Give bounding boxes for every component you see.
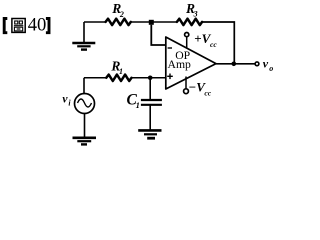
wire: middle rail from source to R1 (84, 77, 107, 79)
op-amp -Vcc pin stub (185, 77, 187, 89)
svg-text:40: 40 (28, 15, 47, 36)
op-amp inverting input sign - (168, 47, 172, 49)
wire: source vertical down (84, 113, 86, 137)
wire: source vertical up (83, 78, 85, 94)
voltage source vi (75, 94, 95, 114)
resistor R3 zigzag (177, 19, 202, 25)
svg-text:3: 3 (193, 9, 198, 18)
op-amp +Vcc pin circle (185, 33, 189, 37)
output terminal circle (255, 62, 259, 66)
wire: top rail middle segment (131, 21, 178, 23)
figure caption bracket right 】 (46, 19, 49, 33)
svg-text:+V: +V (194, 31, 211, 46)
wire: output (216, 63, 255, 65)
junction node (dot) at non-inverting input (148, 76, 153, 81)
svg-text:v: v (263, 57, 269, 71)
junction node (dot) at output (232, 62, 237, 67)
svg-text:2: 2 (119, 10, 124, 19)
wire: capacitor to ground (149, 106, 151, 131)
op-amp U1 triangle (166, 37, 216, 89)
svg-text:cc: cc (204, 89, 211, 98)
figure caption glyph 圖 (12, 19, 25, 33)
svg-text:cc: cc (210, 40, 217, 49)
capacitor C1 (141, 100, 162, 105)
ground (below source) (73, 138, 97, 145)
wire: top rail right segment + feedback drop (202, 22, 234, 64)
ground (below capacitor) (138, 130, 161, 138)
figure caption bracket left 【 (4, 19, 7, 33)
wire: capacitor branch vertical (149, 78, 151, 100)
sine wave (78, 99, 92, 107)
svg-text:1: 1 (136, 100, 140, 110)
ground (top-left) (72, 43, 95, 50)
wire: middle rail to non-inverting input (131, 77, 166, 79)
wire: left drop to ground from top rail (83, 22, 85, 42)
svg-text:o: o (269, 64, 273, 73)
resistor R2 zigzag (106, 19, 131, 25)
wire: drop from top junction to inverting input (151, 25, 166, 45)
op-amp non-inverting input sign + (167, 74, 173, 80)
op-amp +Vcc pin stub (186, 37, 188, 49)
op-amp -Vcc pin circle (184, 89, 189, 94)
svg-text:1: 1 (119, 67, 123, 76)
resistor R1 zigzag (106, 75, 131, 81)
wire: top rail left segment (84, 21, 106, 23)
svg-text:Amp: Amp (168, 58, 192, 71)
junction node (square) at top (149, 20, 154, 25)
